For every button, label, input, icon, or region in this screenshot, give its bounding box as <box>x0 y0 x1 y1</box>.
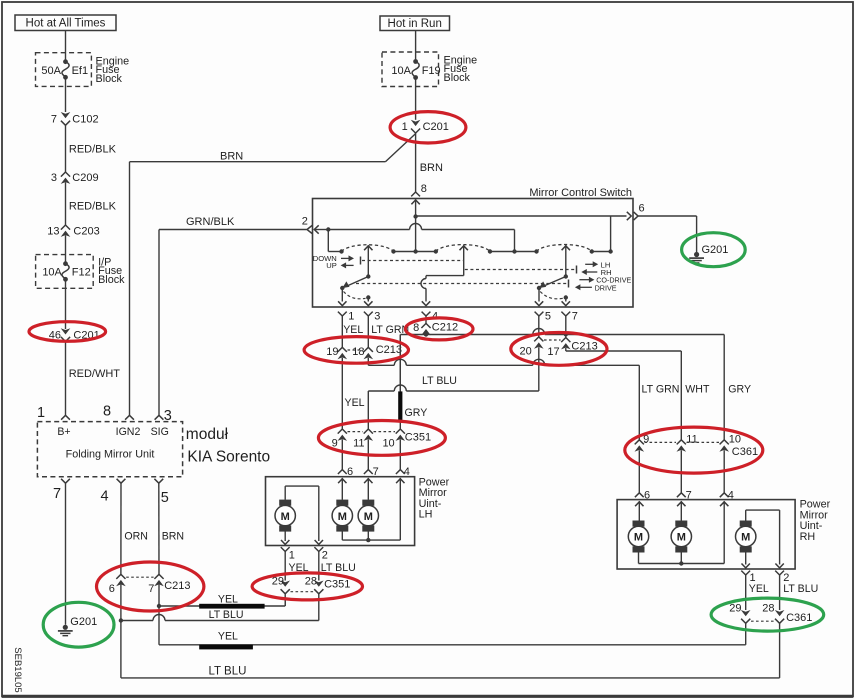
wire: LT BLU line B to C351-28 <box>121 620 153 622</box>
wire: C351-28 to LT BLU line B <box>318 594 320 621</box>
svg-text:29: 29 <box>729 603 741 615</box>
svg-text:5: 5 <box>161 490 169 506</box>
wire: C361-28 down and left, LT BLU <box>779 623 781 678</box>
pole 2 arrow <box>460 246 468 250</box>
wire: C213-7 down to YEL line <box>158 606 160 645</box>
label LH with arrow <box>585 263 593 265</box>
wire: YEL line A to C351-29 <box>159 605 285 607</box>
svg-text:10A: 10A <box>391 65 411 77</box>
unit pin 4 chevron (bottom) <box>117 479 126 483</box>
wire: BRN branch down to unit IGN2 <box>129 162 131 416</box>
connector C213 pin 17 <box>561 338 570 343</box>
highlight ellipse C201-1 (red) <box>390 112 466 143</box>
wire: Hot in Run to fuse F19 <box>415 31 417 62</box>
wire: LH fold motor bottom to pin 1 <box>284 531 286 541</box>
switch pin 1 stub connector <box>338 312 347 316</box>
svg-text:Ef1: Ef1 <box>72 65 89 77</box>
pole 1 blade with arrowhead <box>345 277 369 288</box>
switch pin 7 stub connector <box>561 312 570 316</box>
svg-text:1: 1 <box>289 550 295 562</box>
connector C209 pin 3 <box>61 172 70 177</box>
switch pin 8 chevron <box>411 192 420 196</box>
wire: LH pin2 to C351-28, LT BLU <box>318 552 320 581</box>
svg-text:10: 10 <box>729 434 741 446</box>
wire: C201-1 down to switch pin 8, BRN <box>415 133 417 192</box>
svg-text:6: 6 <box>109 583 115 595</box>
wire: unit pin4 to C213-6, ORN <box>120 483 122 574</box>
RH pin 6 chevron <box>635 493 644 497</box>
unit pin 3 chevron <box>155 415 164 419</box>
svg-text:28: 28 <box>762 603 774 615</box>
connector C212 pin 8 <box>421 323 430 328</box>
highlight ellipse C212 (red) <box>405 318 473 340</box>
label CO-DRIVE with arrow <box>579 279 589 281</box>
junction dot GRY at pin7 wire <box>564 333 568 337</box>
unit pin 8 chevron <box>125 415 134 419</box>
wire: contact link a <box>394 251 436 253</box>
svg-text:3: 3 <box>51 172 57 184</box>
wire: BRN branch horizontal <box>130 161 386 163</box>
wire: RH pin1 to C361-29, YEL <box>745 575 747 610</box>
wire: pin2 drop to contact row <box>327 230 329 252</box>
svg-text:RED/BLK: RED/BLK <box>69 144 117 156</box>
pole 1 alternate throw (dashed arc) <box>344 292 366 299</box>
wire: internal line to pin 6 <box>416 215 627 217</box>
connector C361 pin 11 <box>677 440 686 445</box>
power label box: Hot in Run <box>380 16 450 31</box>
wire: LH fold motor top to pin 2 path <box>284 486 286 500</box>
highlight ellipse G201 right (green) <box>682 233 746 267</box>
wire: switch pin1 to C213-19, YEL <box>341 316 343 347</box>
wire: switch pin4 to C212 <box>425 316 427 323</box>
svg-text:8: 8 <box>103 404 111 420</box>
LH pin 4 internal arrow <box>396 479 404 483</box>
wire: C102 to C209, RED/BLK <box>65 125 67 172</box>
connector C351 pin 10 <box>396 429 405 434</box>
svg-text:C351: C351 <box>405 431 431 443</box>
svg-text:SEB19L05: SEB19L05 <box>12 647 23 692</box>
svg-text:C213: C213 <box>164 580 190 592</box>
svg-text:YEL: YEL <box>749 583 769 595</box>
svg-text:1: 1 <box>37 405 45 421</box>
svg-text:20: 20 <box>520 345 532 357</box>
wire: C361-10 to RH pin 4 <box>723 450 725 493</box>
pole 1 alternate contact dot <box>366 295 370 299</box>
connector C361 pin 9 <box>635 440 644 445</box>
svg-text:C203: C203 <box>73 226 99 238</box>
highlight ellipse C213 right (red) <box>511 333 607 366</box>
svg-text:Folding Mirror Unit: Folding Mirror Unit <box>66 449 155 461</box>
svg-text:M: M <box>677 532 686 544</box>
wire: switch pin5 to C213-20 <box>538 316 540 337</box>
pole 3 blade with arrowhead <box>541 277 566 288</box>
pole 1 blade contact dot <box>340 286 344 290</box>
wire: Hot at All Times to fuse Ef1 <box>65 31 67 62</box>
highlight ellipse C361 upper (red) <box>625 427 763 473</box>
wire: RH left motor bottom to bus <box>638 552 640 563</box>
wire: GRY line right with hops <box>426 334 533 336</box>
junction dot GRY node at C212 <box>424 332 428 336</box>
switch axis line B (dashed) <box>465 269 576 271</box>
wire: fuse Ef1 to connector C102 <box>65 77 67 112</box>
fuse block F12 dashed box <box>36 255 94 289</box>
connector C361 pin 10 <box>720 440 729 445</box>
svg-text:LT BLU: LT BLU <box>783 583 818 595</box>
switch pin 5 stub connector <box>535 312 544 316</box>
wire: C201-46 to Folding Mirror Unit B+, RED/WHT <box>65 342 67 416</box>
svg-text:RED/WHT: RED/WHT <box>69 368 121 380</box>
wire: RH mid motor bottom to bus <box>680 552 682 563</box>
svg-text:GRN/BLK: GRN/BLK <box>186 216 235 228</box>
wire: C351-9 to LH pin 6 <box>341 439 343 469</box>
wire: C213-19 to C351-9, YEL <box>341 358 343 429</box>
wire: LH pin1 to C351-29, YEL <box>284 552 286 581</box>
wire: LH mid motor bottom to bus <box>341 531 343 540</box>
svg-text:YEL: YEL <box>343 324 363 336</box>
wire: pole1 alt contact to pin 3 <box>367 298 369 302</box>
svg-text:moduł: moduł <box>186 426 229 443</box>
svg-text:18: 18 <box>352 346 364 358</box>
connector C203 pin 13 <box>61 225 70 230</box>
svg-text:UP: UP <box>326 261 337 270</box>
connector C213 left dashed link <box>348 349 364 351</box>
pole 1 pivot dot <box>366 274 370 278</box>
wire: switch pin7 to C213-17 <box>565 316 567 338</box>
svg-text:1: 1 <box>348 311 354 323</box>
svg-text:7: 7 <box>373 466 379 478</box>
switch pin 2 entry arrow <box>314 225 318 233</box>
highlight ellipse G201 left (green) <box>43 602 114 647</box>
highlight ellipse C351 lower (red) <box>252 573 362 600</box>
switch axis tick 1 <box>360 257 362 265</box>
LH pin 2 stub connector <box>314 547 323 551</box>
svg-text:BRN: BRN <box>162 531 184 543</box>
svg-text:RED/BLK: RED/BLK <box>69 201 117 213</box>
motor LH vertical (right) <box>362 500 374 506</box>
svg-text:C209: C209 <box>72 172 98 184</box>
wire: unit pin7 to ground G201 <box>65 483 67 625</box>
connector C361 dashed links <box>645 441 677 443</box>
wire: C213-7 to junction <box>158 585 160 607</box>
mirror control switch box <box>313 199 634 308</box>
wire: RH fold motor bottom to pin 1 <box>745 552 747 564</box>
svg-text:SIG: SIG <box>151 426 169 438</box>
pole 3 alternate throw (dashed arc) <box>540 292 563 299</box>
svg-text:2: 2 <box>322 550 328 562</box>
connector C201 pin 46 <box>61 328 71 334</box>
svg-text:10A: 10A <box>42 267 62 279</box>
switch pin 2 chevron <box>307 225 312 233</box>
unit pin 7 chevron (bottom) <box>61 479 70 483</box>
folding mirror unit dashed box <box>37 422 182 477</box>
wire: fuse F19 to connector C201 pin 1 <box>415 78 417 120</box>
ground G201 (right) <box>694 252 699 257</box>
svg-text:4: 4 <box>404 466 410 478</box>
connector C351 pin 9 <box>338 429 347 434</box>
connector C361 pin 29 <box>741 610 751 616</box>
wire: LT GRN line to right column (line 1) <box>368 364 394 366</box>
svg-text:C351: C351 <box>324 578 350 590</box>
switch pin 6 chevron <box>634 212 638 220</box>
svg-text:Hot at All Times: Hot at All Times <box>26 18 106 30</box>
highlight ellipse C361 lower (green) <box>711 598 824 631</box>
wire: pole 2 jog <box>426 275 464 277</box>
wire: BRN branch diagonal <box>385 134 415 162</box>
LH pin 7 internal arrow <box>364 479 372 483</box>
svg-text:C361: C361 <box>786 612 812 624</box>
junction dot YEL line A <box>157 604 161 608</box>
rocker arc 3 (dashed) <box>537 245 592 252</box>
svg-text:6: 6 <box>347 466 353 478</box>
highlight bar on YEL line A <box>199 604 264 609</box>
wire: LT BLU line to C351-11 (line 2) <box>406 390 539 392</box>
svg-text:Block: Block <box>444 72 471 84</box>
wire: RH fold motor top to pin 2 path <box>745 510 747 521</box>
RH pin 7 chevron <box>677 493 686 497</box>
wire: RH pin2 to C361-28, LT BLU <box>779 575 781 610</box>
wire: GRY thick segment to C351-10 <box>399 335 401 392</box>
wire: switch pin3 to C213-18, LT GRN <box>367 316 369 347</box>
svg-text:Block: Block <box>98 274 125 286</box>
svg-text:G201: G201 <box>702 244 729 256</box>
svg-text:7: 7 <box>572 311 578 323</box>
connector C213 lower dashed link <box>126 576 153 578</box>
unit pin 5 chevron (bottom) <box>154 479 163 483</box>
highlight ellipse C351 upper (red) <box>318 421 445 456</box>
wire: contact link c <box>592 251 611 253</box>
svg-text:F19: F19 <box>422 65 441 77</box>
wire: RH common bus <box>639 563 725 565</box>
svg-text:LT BLU: LT BLU <box>321 562 356 574</box>
svg-text:YEL: YEL <box>218 593 238 605</box>
fuse block Ef1 dashed box <box>36 53 92 87</box>
svg-text:RH: RH <box>800 531 816 543</box>
wire: pole3 contact to pin 5 <box>538 288 540 302</box>
label RH with arrow <box>586 271 597 273</box>
wire: C351-29 to YEL line A <box>284 594 286 606</box>
svg-text:B+: B+ <box>57 426 70 438</box>
switch axis tick 2 <box>576 266 578 274</box>
LH pin 6 internal arrow <box>338 479 346 483</box>
wire: GRY line left corner <box>400 334 426 336</box>
junction dot LT BLU line B <box>119 618 123 622</box>
wire: fuse F12 to connector C201 pin 46 <box>65 279 67 329</box>
wire: pole1 contact to pin 1 <box>341 288 343 302</box>
svg-text:BRN: BRN <box>220 151 243 163</box>
wire: unit pin5 to C213-7, BRN <box>158 483 160 574</box>
fuse F19 element 10A <box>413 59 418 64</box>
wire: C361-11 to RH pin 7 <box>680 450 682 493</box>
pole 3 arrow <box>562 246 570 250</box>
connector C351 pin 11 <box>364 429 373 434</box>
wire: GRY line to right GRY column <box>566 334 724 336</box>
LH pin 6 chevron <box>338 470 347 474</box>
svg-text:WHT: WHT <box>685 384 710 396</box>
LH pin 7 chevron <box>364 470 373 474</box>
wire: C213-17 to WHT column <box>565 348 567 351</box>
svg-text:6: 6 <box>644 489 650 501</box>
connector C213 pin 6 (lower) <box>116 574 125 579</box>
wire: pin 8 to contact row <box>415 217 417 252</box>
wire: contact link b <box>490 251 537 253</box>
fuse block F19 dashed box <box>382 52 439 87</box>
svg-text:13: 13 <box>47 226 59 238</box>
RH pin 1 stub connector <box>741 571 750 575</box>
svg-text:BRN: BRN <box>420 162 443 174</box>
pole 3 alternate contact dot <box>564 295 568 299</box>
svg-text:7: 7 <box>686 489 692 501</box>
switch pin 8 entry arrow <box>411 200 419 204</box>
wire: C361-29 down and left, YEL <box>745 623 747 645</box>
svg-text:50A: 50A <box>41 65 61 77</box>
unit pin 1 chevron <box>61 415 70 419</box>
wire: pole3 alt contact to pin 7 <box>565 298 567 302</box>
wire: pole 2 hop over axis C <box>421 279 426 289</box>
RH pin 6 internal arrow <box>635 502 643 506</box>
svg-text:GRY: GRY <box>728 384 751 396</box>
junction dot pin 2 line <box>326 227 330 231</box>
svg-text:7: 7 <box>148 583 154 595</box>
connector C351 dashed links <box>348 431 364 433</box>
wire: C212 stub to GRY node <box>425 333 427 336</box>
motor LH horizontal (mid) <box>336 500 348 506</box>
connector C213 pin 20 <box>534 337 543 342</box>
power mirror unit RH box <box>617 500 795 569</box>
connector C213 pin 19 <box>338 347 347 352</box>
svg-text:4: 4 <box>100 489 108 505</box>
wire: GRN/BLK down to unit SIG <box>158 230 160 416</box>
svg-text:11: 11 <box>686 434 697 446</box>
highlight ellipse C213 left (red) <box>304 337 408 364</box>
motor RH horizontal (left) <box>633 521 645 527</box>
switch pin 3 stub connector <box>364 312 373 316</box>
svg-text:Block: Block <box>96 73 123 85</box>
highlight bar on YEL line to RH <box>199 645 253 650</box>
RH pin 2 stub connector <box>775 571 784 575</box>
RH pin 7 internal arrow <box>677 502 685 506</box>
svg-text:ORN: ORN <box>124 531 148 543</box>
svg-text:4: 4 <box>728 489 734 501</box>
svg-text:M: M <box>281 511 290 523</box>
junction dot LH bus <box>366 538 370 542</box>
connector C351 pin 28 <box>314 581 324 587</box>
wire: C203 to fuse F12 <box>65 235 67 264</box>
highlight ellipse C213 lower (red) <box>97 562 204 611</box>
svg-text:8: 8 <box>421 183 427 195</box>
svg-text:11: 11 <box>353 437 364 449</box>
svg-text:Mirror Control Switch: Mirror Control Switch <box>529 187 632 199</box>
pole 1 arrow <box>364 246 372 250</box>
motor RH vertical (mid) <box>675 521 687 527</box>
connector C201 pin 1 <box>411 120 421 126</box>
pole 3 pivot dot <box>564 274 568 278</box>
svg-text:17: 17 <box>547 346 559 358</box>
svg-text:M: M <box>364 511 373 523</box>
svg-text:7: 7 <box>51 114 57 126</box>
wire: LH common bus <box>342 539 400 541</box>
svg-text:G201: G201 <box>70 616 97 628</box>
wire: pin 6 to ground G201 (top right) <box>638 215 697 217</box>
svg-text:19: 19 <box>326 346 338 358</box>
switch axis line C (dashed) <box>356 283 568 285</box>
svg-text:Hot in Run: Hot in Run <box>388 18 442 30</box>
wire: GRN/BLK horizontal from switch pin 2 <box>159 229 307 231</box>
LH pin 4 chevron <box>396 470 405 474</box>
svg-text:1: 1 <box>402 121 408 133</box>
contact dots row <box>339 249 343 253</box>
svg-text:KIA Sorento: KIA Sorento <box>187 449 270 466</box>
highlight ellipse C201-46 (red) <box>29 322 106 342</box>
pole 3 blade contact dot <box>537 286 541 290</box>
svg-text:3: 3 <box>374 311 380 323</box>
wire: C213-20 to LT BLU line <box>538 347 540 391</box>
wire: pole 2 to pin 4 <box>425 288 427 301</box>
svg-text:M: M <box>741 532 750 544</box>
svg-text:DRIVE: DRIVE <box>595 283 617 292</box>
junction dot RH bus <box>679 561 683 565</box>
svg-text:10: 10 <box>382 437 394 449</box>
connector C213 right dashed link <box>544 339 561 341</box>
connector C361 pin 28 <box>775 610 785 616</box>
switch axis line A (dashed) <box>362 260 464 262</box>
connector C361 lower dashed link <box>751 620 774 622</box>
wire: C213-6 down to LT BLU bottom line <box>120 621 122 678</box>
LH pin 1 stub connector <box>281 547 290 551</box>
wire: LH right motor bottom to bus <box>367 531 369 540</box>
switch axis tick 3 <box>568 280 570 288</box>
wire: C213-18 down to LT GRN line <box>367 358 369 366</box>
svg-text:8: 8 <box>413 322 419 334</box>
svg-text:2: 2 <box>302 216 308 228</box>
motor LH fold (left) <box>279 500 291 506</box>
rocker arc 1 (dashed) <box>342 245 394 252</box>
svg-text:YEL: YEL <box>218 630 238 642</box>
svg-text:C361: C361 <box>732 446 758 458</box>
junction dot pin8/pin6 line <box>413 214 417 218</box>
svg-text:5: 5 <box>545 311 551 323</box>
connector C213 pin 7 (lower) <box>154 574 163 579</box>
svg-text:F12: F12 <box>72 267 91 279</box>
svg-text:C212: C212 <box>432 322 458 334</box>
power mirror unit LH box <box>266 477 415 546</box>
label DRIVE with arrow <box>580 286 592 288</box>
svg-text:7: 7 <box>53 486 61 502</box>
svg-text:M: M <box>634 532 643 544</box>
svg-text:LT BLU: LT BLU <box>422 375 457 387</box>
svg-text:C102: C102 <box>72 114 98 126</box>
connector C351 pin 29 <box>280 581 290 587</box>
RH pin 4 chevron <box>720 493 729 497</box>
fuse Ef1 element 50A <box>63 59 68 64</box>
svg-text:YEL: YEL <box>345 397 365 409</box>
connector C351 lower dashed link <box>291 591 314 593</box>
svg-text:LT BLU: LT BLU <box>209 665 247 677</box>
wire: C361-9 to RH pin 6 <box>638 450 640 493</box>
svg-text:3: 3 <box>164 408 172 424</box>
svg-text:C201: C201 <box>423 121 449 133</box>
ground G201 (left) <box>63 625 68 630</box>
switch pin 4 stub connector <box>422 312 431 316</box>
fuse F12 element 10A <box>63 261 68 266</box>
svg-text:LH: LH <box>419 509 433 521</box>
svg-text:LT BLU: LT BLU <box>209 609 244 621</box>
connector C102 pin 7 <box>61 112 71 118</box>
svg-text:IGN2: IGN2 <box>116 426 141 438</box>
svg-text:C213: C213 <box>376 344 402 356</box>
svg-text:6: 6 <box>638 203 644 215</box>
wire: C351-11 to LH pin 7 <box>367 439 369 469</box>
wire: C351-10 to LH pin 4 <box>399 439 401 469</box>
